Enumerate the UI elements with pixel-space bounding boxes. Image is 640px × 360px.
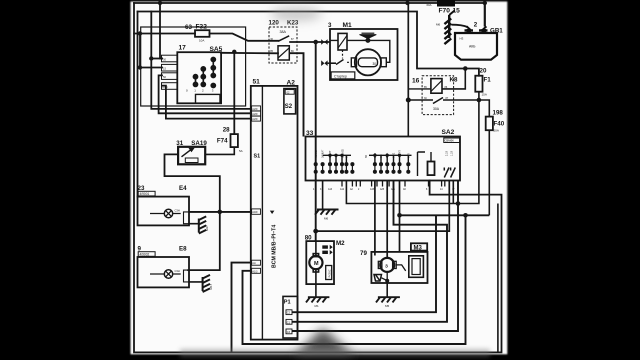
wire: K8 coil feed from battery line [442, 69, 465, 89]
svg-text:ВХ: ВХ [365, 155, 368, 158]
wire: SA5 pin3 L-run to BCM [159, 75, 251, 113]
pin name column labels inside 33 [315, 148, 454, 158]
ground M6 (battery) [444, 10, 454, 44]
wire: BCM pin to mid nest run [243, 215, 466, 344]
svg-text:А25: А25 [380, 188, 385, 191]
wire: SA19 left run down to lamp bus [165, 154, 220, 270]
svg-text:М1: М1 [315, 304, 319, 308]
wire: SA5 ACC pin L-run to BCM [162, 86, 251, 119]
svg-text:2: 2 [474, 22, 478, 29]
wire: drop from F1 cross line down to bottom frame [497, 204, 499, 353]
wire: F32 feed line with skew toward relay K23 [134, 33, 195, 35]
SA2 internal switches [444, 168, 455, 178]
junction dots K8 area [463, 66, 468, 71]
svg-text:А31: А31 [391, 188, 396, 191]
wire: second bus line B to K8/F1 branch [138, 12, 479, 76]
battery GB1 [455, 26, 497, 59]
wire: K23 drop to box 33 / motor M2 [315, 42, 317, 241]
junction: lamp bus on E4 wire [218, 210, 223, 215]
svg-text:Стартер: Стартер [334, 75, 347, 79]
svg-text:5A: 5A [239, 149, 243, 153]
svg-text:10A: 10A [199, 39, 204, 43]
svg-text:198: 198 [493, 110, 504, 117]
svg-text:20A: 20A [494, 129, 499, 133]
svg-text:F40: F40 [494, 120, 505, 127]
wire: P1 pin C2 run [292, 215, 436, 312]
label 31 SA19 [176, 140, 207, 147]
ground M17 (E8) [203, 275, 210, 292]
wire: BCM pin to lower-left frame run [232, 263, 251, 353]
SA2 internal resistor [418, 152, 435, 176]
SA5 pin stub 30 [162, 55, 178, 62]
wire: F74 vertical tap [233, 52, 235, 135]
motor circle [355, 49, 381, 75]
lamp unit E8 [138, 252, 190, 288]
washer pump symbol [374, 275, 382, 282]
svg-text:А12: А12 [340, 188, 345, 191]
svg-text:16: 16 [412, 78, 420, 85]
svg-text:79: 79 [360, 250, 367, 257]
wire: P1 pin C1 run [292, 181, 447, 322]
wire: battery positive riser [484, 3, 486, 27]
svg-text:1.1В: 1.1В [451, 151, 454, 156]
svg-text:F1: F1 [484, 77, 492, 84]
svg-text:63: 63 [185, 24, 192, 31]
svg-text:М17: М17 [205, 225, 209, 231]
svg-text:SA19: SA19 [191, 140, 207, 147]
P1 connector box [283, 296, 298, 338]
SA5 bottom sub-block [196, 94, 221, 103]
wire: SA5 to K23 coil [221, 52, 278, 55]
svg-text:M1: M1 [343, 22, 352, 29]
wire: K8 coil stub from bus [408, 88, 431, 90]
svg-text:30A: 30A [433, 107, 440, 111]
connector arrows on M1 leads [321, 39, 327, 66]
wire: box33 column to ground M6 [322, 181, 324, 210]
ground M6 (below 33) [315, 210, 339, 215]
SA5 contact columns [193, 57, 215, 87]
ground symbol inside M1 [360, 33, 377, 42]
svg-text:S1: S1 [254, 154, 261, 160]
wire: left outer frame + bottom frame + right riser to SA2 pin [134, 3, 502, 352]
wire: bus continues down into box 33 [407, 100, 409, 137]
svg-text:ACC: ACC [162, 85, 168, 89]
svg-text:ПИТАН: ПИТАН [315, 150, 318, 158]
wire: SA2 pin down to cross line [452, 181, 454, 204]
wire: K23 coil out down to box 33 [289, 53, 303, 136]
connector glyph in M2 [322, 245, 332, 255]
svg-text:C3H: C3H [175, 269, 180, 273]
BCM body control module box 51/A2 [251, 86, 298, 340]
fuse F74 [231, 134, 238, 147]
svg-text:20: 20 [480, 68, 487, 75]
svg-text:А13: А13 [328, 188, 333, 191]
svg-text:A2/9: A2/9 [252, 108, 258, 111]
SA5 pin stub 15 [162, 64, 178, 71]
label F70 15 [439, 8, 461, 15]
svg-text:4/9002: 4/9002 [140, 253, 150, 257]
SA5 pin stub 50 [162, 73, 178, 80]
wire: K8 contact line to F40 [408, 100, 489, 117]
svg-text:S2: S2 [285, 104, 293, 110]
svg-text:GB1: GB1 [490, 28, 503, 35]
connector S2 sub box [284, 89, 296, 114]
svg-text:M3: M3 [414, 246, 423, 252]
junction on K23 output [313, 40, 318, 45]
svg-text:М6: М6 [324, 217, 328, 221]
svg-text:30: 30 [373, 62, 377, 66]
fuse F70 (black) [437, 1, 455, 7]
wire: F74 to SA19 [205, 147, 234, 154]
wire: E4 to BCM pin [189, 211, 251, 213]
starter label box [331, 72, 355, 79]
svg-text:F74: F74 [217, 138, 228, 145]
svg-text:23: 23 [138, 185, 145, 192]
switch SA19 [178, 147, 205, 165]
svg-text:4/9001: 4/9001 [140, 192, 150, 196]
svg-text:M2: M2 [336, 240, 345, 247]
relay K8 dashed box [422, 76, 454, 115]
wire: line A drop to SA5 pin 1 [160, 3, 162, 59]
svg-text:ЗАЖИГ: ЗАЖИГ [322, 149, 325, 158]
svg-text:РКЭБС: РКЭБС [329, 269, 332, 277]
svg-text:A2/9: A2/9 [252, 113, 258, 116]
fuse F40 [486, 117, 493, 131]
svg-text:A2: A2 [287, 79, 296, 86]
motor unit M2 (80) [305, 234, 345, 247]
svg-text:31: 31 [176, 140, 183, 147]
svg-text:33: 33 [306, 130, 314, 137]
video artifact smudge bottom [292, 328, 356, 357]
wire: bus drop from line A through K8 area [407, 3, 409, 100]
svg-text:P1: P1 [284, 300, 291, 306]
contact pairs inside 33 [314, 163, 409, 174]
svg-text:E8: E8 [179, 245, 187, 252]
svg-text:M: M [314, 261, 319, 267]
washer unit M3 (79) [360, 250, 367, 257]
svg-text:З: З [385, 263, 388, 268]
fuse F1 [475, 76, 482, 92]
wire: left bus x=137.5 down to lamp block E4 [137, 12, 139, 197]
svg-text:120: 120 [269, 20, 280, 27]
svg-text:Н3: Н3 [460, 37, 464, 41]
SA5 pin stub ACC [162, 83, 178, 90]
svg-text:A2/9: A2/9 [252, 118, 258, 121]
svg-text:2.1В: 2.1В [446, 151, 449, 156]
ground M5 (below M3) [376, 297, 400, 302]
fuse F32 [195, 30, 210, 37]
internal bus mid group [369, 155, 412, 164]
ignition switch SA5 box [177, 52, 221, 103]
ground M17 (E4) [199, 216, 206, 233]
svg-text:М5: М5 [385, 304, 389, 308]
svg-text:АКБ: АКБ [469, 45, 476, 49]
wire: F32 junction drop to SA5 pin 2 [140, 34, 162, 68]
relay K23 dashed box [269, 27, 297, 63]
svg-text:K8: K8 [450, 77, 458, 84]
wire: F40 down to cross line [488, 130, 490, 215]
wire: F1 down and across to box 33 column [346, 92, 479, 204]
svg-text:BCM МВ/В–РІ–Т4: BCM МВ/В–РІ–Т4 [272, 225, 278, 268]
svg-text:17: 17 [179, 45, 187, 52]
svg-text:A1/3: A1/3 [252, 270, 258, 273]
wire: SA2 pin to M2 cross line [316, 181, 450, 232]
svg-text:F32: F32 [196, 24, 208, 31]
svg-text:51: 51 [253, 79, 261, 86]
wire: K23 output to M1 [289, 41, 330, 43]
svg-text:3: 3 [328, 22, 332, 29]
label 28 F74 [217, 126, 243, 153]
solenoid [338, 33, 347, 50]
svg-text:E4: E4 [179, 185, 187, 192]
svg-text:15A: 15A [482, 93, 487, 97]
wire: E4 to ground [189, 220, 199, 224]
pin stubs below box 33 [342, 181, 445, 187]
ground M1 (below M2) [306, 297, 329, 302]
connector block 33 / switch SA2 box [306, 137, 461, 181]
svg-text:F70: F70 [439, 8, 451, 15]
wire: bus drop through SA5 pin1 down to BCM pin A [151, 12, 251, 109]
svg-text:SA2: SA2 [442, 129, 455, 136]
svg-text:A4/9: A4/9 [252, 211, 258, 214]
wire: extension of mid cross line to F40 drop [466, 214, 490, 216]
lamp unit E4 [138, 191, 190, 225]
svg-text:38A: 38A [280, 30, 287, 34]
internal bus left group [323, 155, 351, 164]
video artifact smudge top [270, 7, 322, 21]
svg-text:28: 28 [223, 126, 230, 133]
BCM left pin boxes [252, 106, 261, 111]
svg-text:9: 9 [138, 245, 142, 252]
svg-text:SA5: SA5 [210, 46, 223, 53]
connector arrow inside BCM at A4 pin [270, 211, 275, 214]
wire: box33 columns down to washer unit M3 [375, 181, 400, 259]
wire: battery terminal 1 to chassis [451, 25, 467, 27]
svg-text:C3H: C3H [175, 209, 180, 213]
svg-text:М17: М17 [209, 283, 213, 289]
wire: P1 pin C3 run [292, 181, 458, 332]
junction dots top-left [138, 1, 487, 70]
white paper area [131, 2, 508, 355]
component group box around F32/SA5 [141, 27, 246, 106]
wire: E8 to ground [189, 279, 203, 282]
svg-text:М6: М6 [436, 23, 440, 27]
svg-text:СВМФК: СВМФК [445, 139, 455, 143]
starter motor M1 box [330, 29, 398, 80]
svg-text:AL/: AL/ [252, 262, 256, 265]
wire: M1 lower pin stub [328, 62, 336, 64]
svg-text:60A: 60A [427, 3, 432, 7]
wire: top supply line A [134, 2, 485, 4]
